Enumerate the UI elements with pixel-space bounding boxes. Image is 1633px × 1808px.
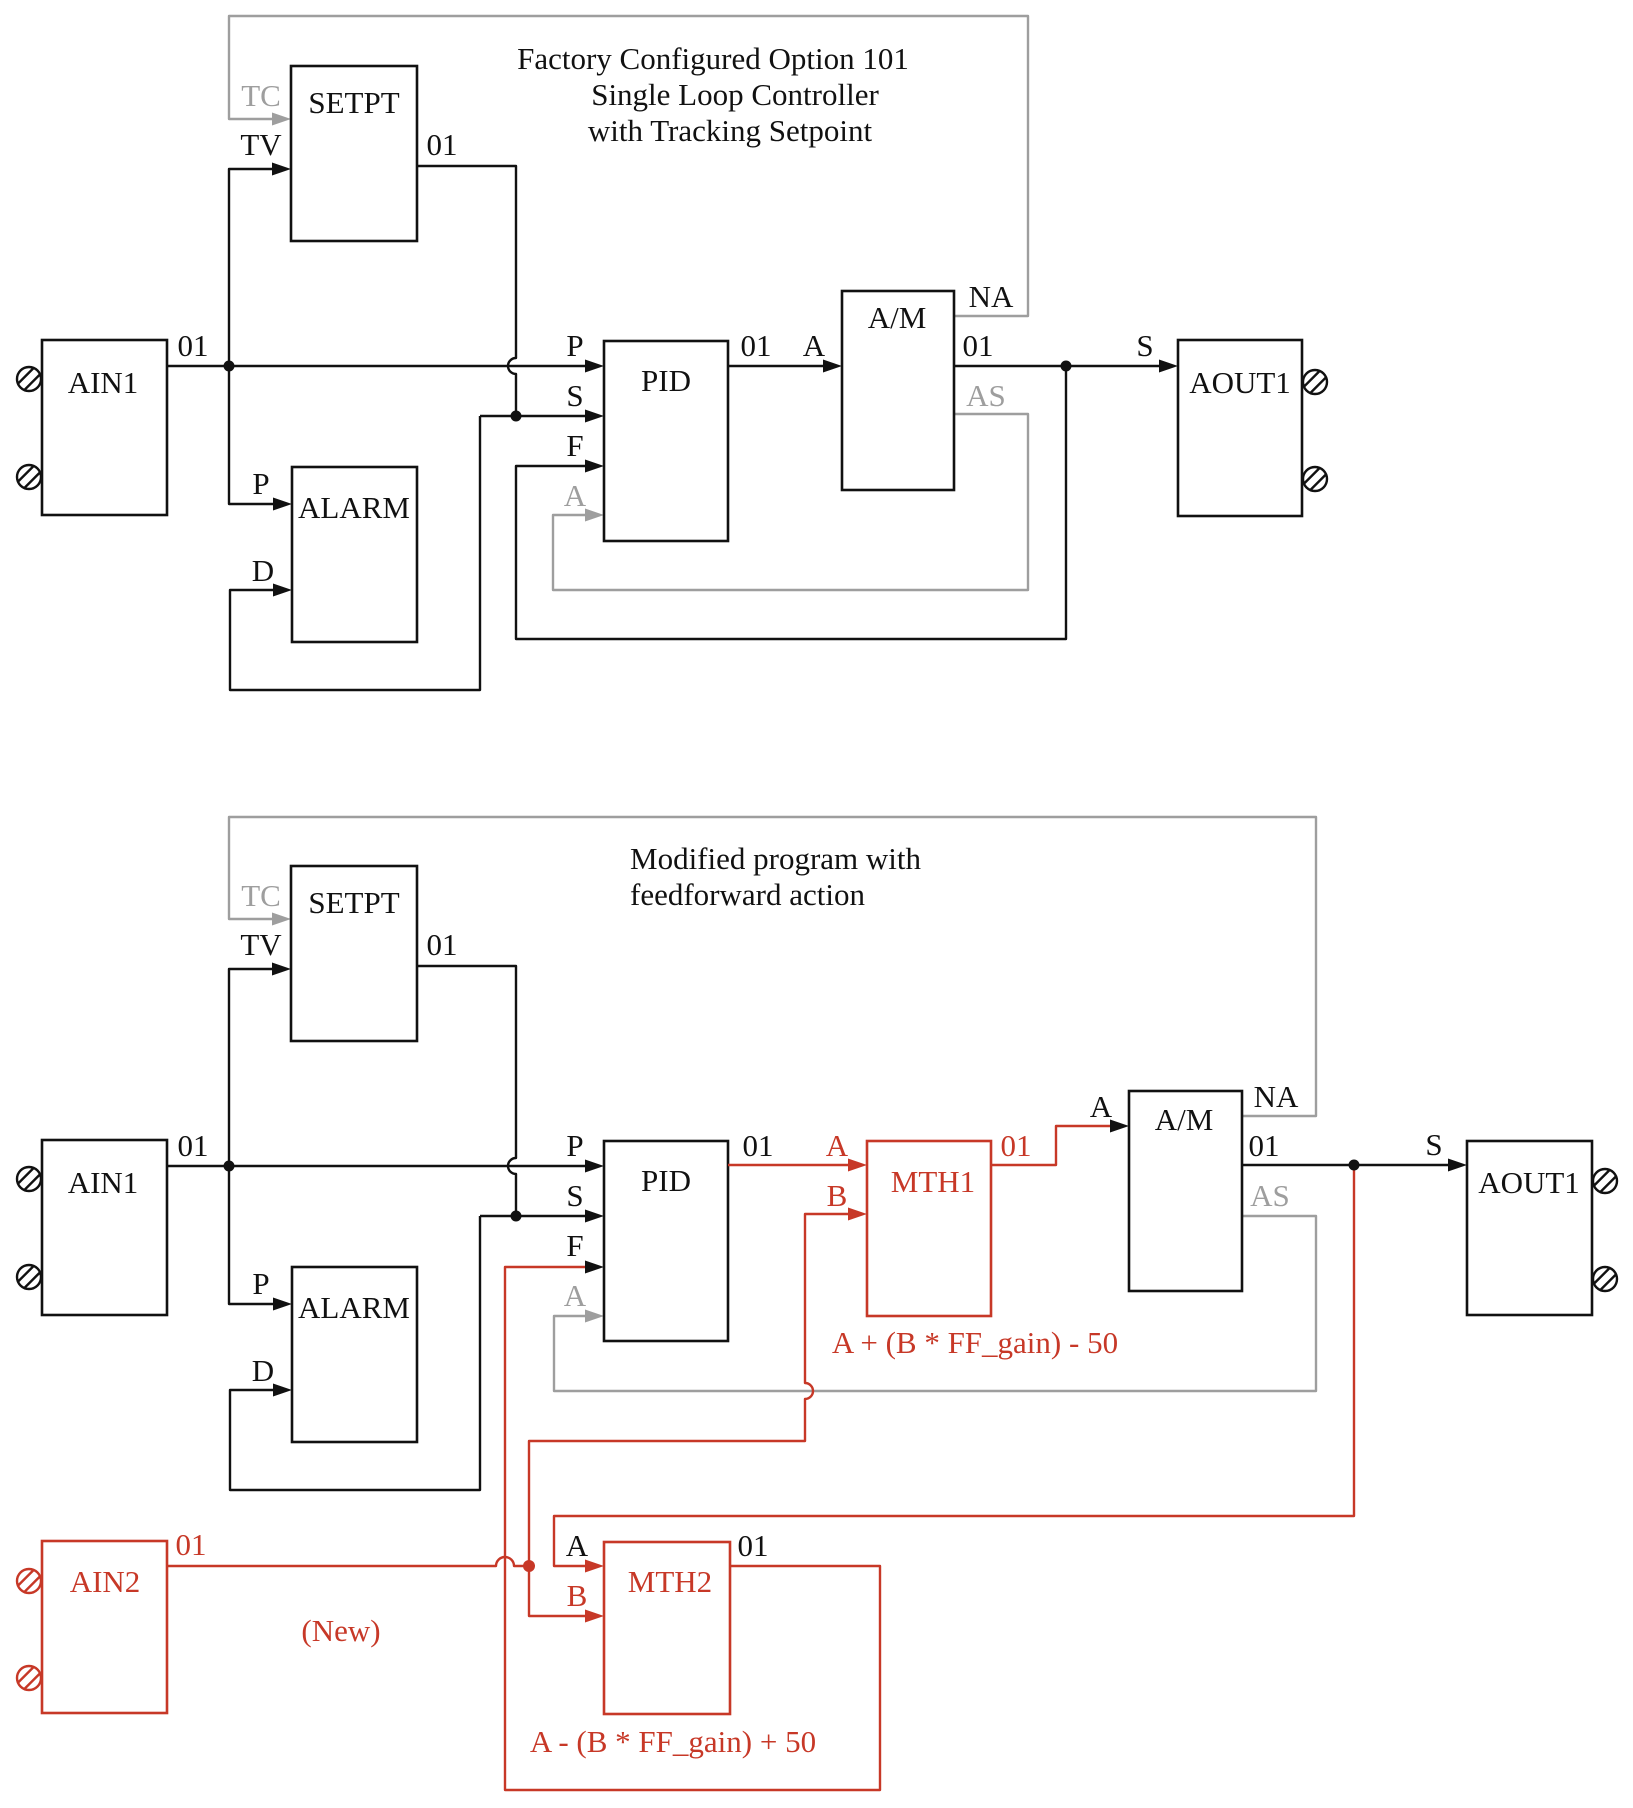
wire feedback A/M output node to PID input F (top) [516, 366, 1066, 639]
svg-text:Single Loop Controller: Single Loop Controller [591, 77, 879, 112]
wire branch to ALARM input P (top) [229, 366, 292, 511]
function block SETPT (top diagram) [291, 66, 417, 241]
function block AIN2 red (bottom diagram) [42, 1541, 167, 1713]
svg-text:01: 01 [741, 328, 772, 363]
wire branch to ALARM input P (bottom) [229, 1166, 292, 1311]
screw terminal AOUT1 pin 1 (top) [1303, 370, 1327, 394]
svg-text:01: 01 [743, 1128, 774, 1163]
svg-text:Factory Configured Option 101: Factory Configured Option 101 [517, 41, 909, 76]
function block SETPT (bottom diagram) [291, 866, 417, 1041]
wire AIN1 output 01 to PID input P (bottom) [167, 1160, 604, 1173]
svg-text:NA: NA [1254, 1079, 1299, 1114]
svg-text:ALARM: ALARM [298, 1290, 410, 1325]
wire gray AS loop from A/M pin AS to PID pin A (bottom diagram) [554, 1216, 1316, 1391]
svg-text:01: 01 [1249, 1128, 1280, 1163]
svg-text:P: P [252, 1266, 269, 1301]
svg-text:PID: PID [641, 1163, 691, 1198]
screw terminal AIN1 pin 1 (top) [17, 367, 41, 391]
function block ALARM (top diagram) [292, 467, 417, 642]
wire AIN1 output 01 to PID input P (top) [167, 360, 604, 373]
svg-text:NA: NA [969, 279, 1014, 314]
svg-text:F: F [566, 1228, 583, 1263]
wire setpoint node to PID input S (bottom) [480, 1210, 604, 1223]
svg-text:AS: AS [1250, 1178, 1290, 1213]
svg-text:ALARM: ALARM [298, 490, 410, 525]
wire SETPT output 01 down with crossover hop (bottom) [417, 966, 516, 1216]
svg-text:feedforward action: feedforward action [630, 877, 865, 912]
function block AOUT1 (top diagram) [1178, 340, 1302, 516]
function block A/M (top diagram) [842, 291, 954, 490]
wire gray AS loop from A/M pin AS to PID pin A (top diagram) [553, 414, 1028, 590]
svg-text:S: S [1136, 328, 1153, 363]
function block AIN1 (bottom diagram) [42, 1140, 167, 1315]
svg-text:S: S [1425, 1127, 1442, 1162]
svg-text:TC: TC [241, 878, 281, 913]
svg-text:01: 01 [963, 328, 994, 363]
svg-text:A/M: A/M [1155, 1102, 1214, 1137]
function block ALARM (bottom diagram) [292, 1267, 417, 1442]
wire branch to SETPT input TV (top) [229, 163, 291, 367]
svg-text:A: A [826, 1128, 849, 1163]
wire A/M output 01 to AOUT1 input S (top) [954, 360, 1178, 373]
svg-text:with Tracking Setpoint: with Tracking Setpoint [588, 113, 873, 148]
svg-text:01: 01 [1001, 1128, 1032, 1163]
wire red AIN2 output 01 with crossover hop to node (bottom) [167, 1557, 529, 1566]
svg-text:TV: TV [240, 127, 282, 162]
wire red PID output 01 to MTH1 input A (bottom) [728, 1159, 867, 1172]
svg-text:TV: TV [240, 927, 282, 962]
svg-text:PID: PID [641, 363, 691, 398]
junction red AIN2 node (bottom) [523, 1560, 535, 1572]
svg-text:AIN1: AIN1 [68, 365, 139, 400]
wire red MTH2 output 01 loop to PID input F (bottom) [505, 1261, 880, 1791]
svg-text:A: A [564, 1278, 587, 1313]
function block MTH2 red (bottom diagram) [604, 1542, 730, 1714]
wire gray NA loop from A/M pin NA to SETPT pin TC (bottom diagram) [229, 817, 1316, 1116]
svg-text:TC: TC [241, 78, 281, 113]
svg-text:SETPT: SETPT [308, 885, 399, 920]
svg-text:AS: AS [966, 378, 1006, 413]
function block PID (top diagram) [604, 341, 728, 541]
svg-text:A: A [566, 1528, 589, 1563]
svg-text:01: 01 [738, 1528, 769, 1563]
svg-text:P: P [566, 1128, 583, 1163]
svg-text:D: D [252, 1353, 274, 1388]
svg-text:01: 01 [178, 328, 209, 363]
wire red node to MTH2 input B (bottom) [529, 1566, 604, 1623]
junction A/M output node (bottom) [1349, 1160, 1360, 1171]
svg-text:MTH2: MTH2 [628, 1564, 712, 1599]
svg-text:AIN2: AIN2 [70, 1564, 141, 1599]
function block A/M (bottom diagram) [1129, 1091, 1242, 1291]
wire red branch to MTH1 input B with crossover hop (bottom) [529, 1208, 867, 1567]
screw terminal AOUT1 pin 1 (bottom) [1593, 1169, 1617, 1193]
svg-text:A/M: A/M [868, 300, 927, 335]
svg-text:F: F [566, 428, 583, 463]
wire setpoint node to PID input S (top) [480, 410, 604, 423]
svg-text:01: 01 [176, 1527, 207, 1562]
svg-text:P: P [566, 328, 583, 363]
wire SETPT output 01 down with crossover hop (top) [417, 166, 516, 416]
screw terminal AOUT1 pin 2 (top) [1303, 467, 1327, 491]
function block MTH1 red (bottom diagram) [867, 1141, 991, 1316]
svg-text:S: S [566, 378, 583, 413]
function block AIN1 (top diagram) [42, 340, 167, 515]
svg-text:MTH1: MTH1 [891, 1164, 975, 1199]
wire setpoint node to ALARM input D (top) [230, 416, 480, 690]
wire branch to SETPT input TV (bottom) [229, 963, 291, 1167]
svg-text:Modified program with: Modified program with [630, 841, 922, 876]
screw terminal AIN1 pin 2 (bottom) [17, 1265, 41, 1289]
svg-text:S: S [566, 1178, 583, 1213]
junction AIN1 output node (top) [224, 361, 235, 372]
function block PID (bottom diagram) [604, 1141, 728, 1341]
wire gray NA loop from A/M pin NA to SETPT pin TC (top diagram) [229, 16, 1028, 316]
svg-text:(New): (New) [301, 1613, 380, 1648]
svg-text:A: A [803, 328, 826, 363]
svg-text:A + (B * FF_gain) - 50: A + (B * FF_gain) - 50 [832, 1325, 1118, 1360]
function block AOUT1 (bottom diagram) [1467, 1141, 1592, 1315]
screw terminal AIN2 pin 2 red (bottom) [17, 1666, 41, 1690]
wire red feedback A/M output node to MTH2 input A (bottom) [554, 1165, 1354, 1573]
wire red MTH1 output 01 to A/M input A (bottom) [991, 1120, 1129, 1166]
svg-text:AOUT1: AOUT1 [1478, 1165, 1580, 1200]
junction setpoint node (bottom) [511, 1211, 522, 1222]
svg-text:B: B [567, 1578, 588, 1613]
svg-text:01: 01 [427, 927, 458, 962]
svg-text:01: 01 [427, 127, 458, 162]
svg-text:A - (B * FF_gain) + 50: A - (B * FF_gain) + 50 [530, 1724, 816, 1759]
screw terminal AOUT1 pin 2 (bottom) [1593, 1267, 1617, 1291]
wire setpoint node to ALARM input D (bottom) [230, 1216, 480, 1490]
svg-text:D: D [252, 553, 274, 588]
junction A/M output node (top) [1061, 361, 1072, 372]
svg-text:A: A [1090, 1089, 1113, 1124]
svg-text:01: 01 [178, 1128, 209, 1163]
svg-text:A: A [564, 478, 587, 513]
wire PID output 01 to A/M input A (top) [728, 360, 842, 373]
svg-text:AOUT1: AOUT1 [1189, 365, 1291, 400]
junction setpoint node (top) [511, 411, 522, 422]
svg-text:SETPT: SETPT [308, 85, 399, 120]
screw terminal AIN1 pin 1 (bottom) [17, 1167, 41, 1191]
screw terminal AIN1 pin 2 (top) [17, 465, 41, 489]
svg-text:B: B [827, 1178, 848, 1213]
junction AIN1 output node (bottom) [224, 1161, 235, 1172]
svg-text:AIN1: AIN1 [68, 1165, 139, 1200]
screw terminal AIN2 pin 1 red (bottom) [17, 1569, 41, 1593]
wire A/M output 01 to AOUT1 input S (bottom) [1242, 1159, 1467, 1172]
svg-text:P: P [252, 466, 269, 501]
